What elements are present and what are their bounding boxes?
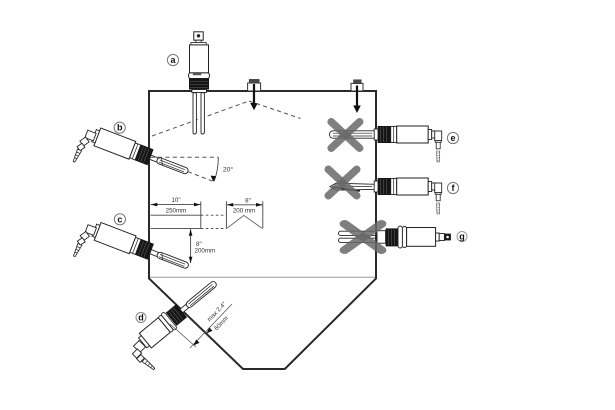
X mark f: [328, 169, 356, 195]
threaded section: [189, 79, 209, 90]
20 degree arc arrow: [211, 176, 217, 182]
label g: [457, 231, 467, 241]
dimension 10in/250mm: [151, 202, 227, 229]
vessel outline: [149, 91, 376, 369]
threaded block: [386, 228, 398, 246]
sensor b: [72, 127, 191, 181]
svg-text:c: c: [117, 214, 122, 224]
cone transition line: [150, 276, 375, 278]
back cap: [139, 336, 150, 348]
sensor a: [189, 32, 210, 134]
body: [407, 228, 436, 247]
svg-text:b: b: [117, 123, 123, 133]
fill nozzle N2: [351, 80, 363, 91]
svg-text:8": 8": [245, 198, 251, 205]
fill arrow A2: [353, 86, 361, 114]
label b: [114, 122, 125, 133]
body: [190, 45, 209, 73]
svg-text:200 mm: 200 mm: [233, 207, 255, 214]
fork tines: [193, 93, 204, 135]
flange rings: [398, 226, 402, 248]
dimension 8in/200mm vertical: [190, 229, 192, 263]
material surface dashed: [152, 101, 301, 136]
label f: [447, 182, 458, 193]
20 degree arc: [214, 157, 218, 181]
wall line over fork: [375, 225, 377, 248]
sensor e: [374, 126, 442, 162]
neck: [436, 233, 440, 241]
X mark e: [331, 122, 359, 148]
svg-text:g: g: [459, 231, 465, 241]
sensor b axis dashed: [188, 172, 213, 181]
svg-text:200mm: 200mm: [195, 248, 216, 255]
fork tines: [339, 231, 379, 235]
svg-text:250mm: 250mm: [166, 207, 187, 214]
svg-text:10": 10": [171, 197, 180, 204]
sensor e fork: [330, 131, 377, 138]
threaded block: [166, 304, 187, 326]
sensor f: [374, 178, 442, 214]
svg-text:20°: 20°: [223, 166, 234, 174]
X mark g: [345, 224, 382, 250]
fork blade: [180, 304, 189, 312]
label a: [167, 54, 178, 65]
sensor d cable: [132, 340, 155, 370]
sensor g: [339, 225, 451, 248]
flange rings: [161, 312, 178, 331]
sensor c: [72, 221, 191, 275]
sensor d: [136, 275, 222, 351]
svg-text:d: d: [138, 312, 144, 322]
fill nozzle N1: [248, 79, 261, 91]
label e: [447, 132, 458, 143]
connector plug: [194, 32, 203, 40]
20 degree reference dashed: [151, 156, 219, 158]
fill arrow A1: [250, 84, 258, 110]
label c: [114, 214, 125, 225]
label d: [136, 312, 146, 322]
plug: [444, 234, 451, 241]
process connection: [192, 90, 207, 93]
collar: [189, 73, 210, 79]
svg-text:e: e: [450, 133, 455, 143]
body: [139, 318, 170, 348]
tube: [377, 231, 386, 244]
dimension 8in/200mm heap: [226, 201, 262, 229]
sensor f fork: [330, 183, 376, 191]
dimension max 2.4in/60mm: [170, 301, 232, 348]
